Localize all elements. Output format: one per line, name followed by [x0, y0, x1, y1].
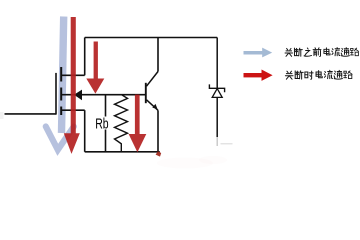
- wire: source stub: [61, 109, 84, 111]
- mosfet channel segment 3 (source): [60, 107, 62, 116]
- zener diode D1 anode triangle: [212, 89, 222, 98]
- resistor Rb zigzag: [115, 95, 128, 152]
- wire: drain vertical up to top rail: [84, 38, 86, 76]
- wire: middle body/base wire: [61, 94, 145, 96]
- wire: gate lead from left edge: [5, 38, 218, 152]
- wire: source vertical down: [84, 110, 86, 152]
- wire: zener lower lead: [216, 97, 218, 137]
- red arrow R1 (tall, over mosfet): [64, 17, 80, 154]
- mosfet body-diode arrow: [74, 90, 82, 101]
- faint smudge at left edge near gate lead: [0, 112, 4, 119]
- legend arrow blue: [244, 48, 273, 58]
- white background: [0, 0, 360, 175]
- transistor Q1 emitter diagonal: [147, 100, 159, 111]
- transistor Q1 base bar: [145, 83, 147, 103]
- zener diode D1 cathode bar with wings: [209, 84, 224, 92]
- wire: emitter vertical to bottom rail: [157, 110, 159, 152]
- mosfet channel segment 2 (body): [60, 88, 62, 101]
- wire: top rail: [85, 37, 218, 39]
- mosfet gate bar: [55, 73, 57, 115]
- big light-blue arrow (before turn-off current path): [46, 17, 74, 150]
- red mark R4 near emitter bottom: [156, 151, 162, 156]
- white knockout behind Rb label: [94, 117, 110, 130]
- legend text row 2: 关断时电流通路: [285, 70, 352, 79]
- red arrow R2 (onto gate node): [86, 42, 104, 94]
- wire: drain stub: [61, 74, 84, 76]
- wire: bottom rail: [85, 151, 160, 153]
- legend text row 1: 关断之前电流通路: [285, 48, 359, 57]
- legend arrow red: [244, 70, 273, 81]
- faded continuation of lower lead: [216, 137, 218, 146]
- red arrow R3 (through Rb branch): [129, 95, 147, 153]
- wire: right vertical from top rail to zener: [216, 38, 218, 89]
- wire: collector vertical to top rail: [157, 38, 159, 72]
- faint gray dash bottom right: [221, 143, 233, 145]
- wire: vertical from middle wire to bottom rail: [105, 95, 107, 152]
- svg-text:Rb: Rb: [95, 116, 108, 133]
- mosfet channel segment 1 (drain): [60, 67, 62, 82]
- transistor Q1 emitter arrowhead: [152, 104, 157, 109]
- faint pink watermark smear bottom center: [157, 158, 213, 169]
- transistor Q1 collector diagonal: [147, 72, 159, 87]
